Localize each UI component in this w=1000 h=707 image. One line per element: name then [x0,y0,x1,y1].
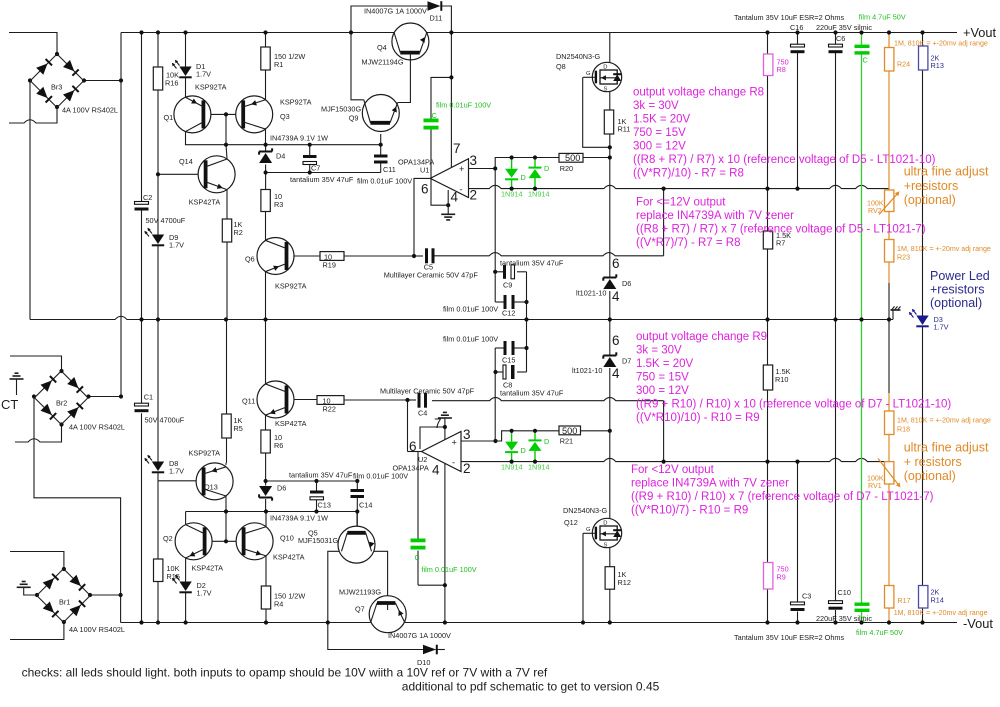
svg-text:DN2540N3-G: DN2540N3-G [556,52,601,61]
svg-text:R21: R21 [560,437,573,446]
wire C12 horizontal leads [495,301,503,303]
resistor R16 10K [153,67,162,90]
wire R22 to C4 node [344,399,408,401]
svg-text:((V*R7)/7) - R7 = R8: ((V*R7)/7) - R7 = R8 [636,237,740,249]
svg-text:film 0.01uF 100V: film 0.01uF 100V [353,472,408,481]
wire Q5 emitter to Q7 base [372,551,388,602]
wire D1 Q1 emitter column x=185.5 [185,33,187,67]
wire Q6 base to R19 [287,255,321,257]
wire R5 column [226,320,228,415]
svg-text:C2: C2 [143,193,152,202]
wire R11 to sense column [609,134,611,147]
svg-text:ultra fine adjust: ultra fine adjust [904,165,989,179]
wire RV2 to R23 [888,212,890,240]
resistor R23 orange [885,240,894,263]
capacitor C6 silmic [829,44,843,47]
svg-text:+resistors: +resistors [930,283,985,297]
svg-text:RV1: RV1 [868,482,882,490]
wire Q14 base to D9 line [158,173,206,175]
capacitor film 4.7uF green bottom [855,603,870,606]
svg-text:1.7V: 1.7V [934,323,949,332]
svg-text:R22: R22 [323,405,336,414]
wire R21 right lead [581,430,610,432]
svg-text:OPA134PA: OPA134PA [393,464,429,473]
svg-text:1.5K = 20V: 1.5K = 20V [633,114,691,126]
resistor R24 orange [885,48,894,72]
svg-text:+Vout: +Vout [963,25,997,40]
diode D10 IN4007G [423,645,436,655]
svg-text:(optional): (optional) [904,193,956,207]
wire feedback riser x=663.6 top [663,189,665,256]
wire U2 output lead [408,451,422,453]
zener diode D6 IN4739A lower [259,497,272,499]
wire D10 loop bottom [328,623,423,650]
resistor R14 2K navy [919,586,928,609]
wire green film cap column [861,33,863,45]
svg-text:Q6: Q6 [245,255,255,264]
wire Br2 right vertex to positive line [89,396,122,398]
wire green diode2 upper stub [534,158,536,168]
svg-text:film 0.01uF 100V: film 0.01uF 100V [443,305,498,314]
wire R7 column [767,189,769,231]
diode D11 IN4007G [428,1,441,11]
ground U1 pin4 [441,213,455,215]
transistor Q9 MJF15030G [362,95,399,132]
wire C6 C10 column [835,33,837,45]
resistor R6 10 [261,430,270,453]
wire R17 to bottom rail [888,608,890,623]
svg-text:IN4007G 1A 1000V: IN4007G 1A 1000V [388,631,451,640]
transistor Q7 MJW21193G [369,596,406,633]
svg-text:4A 100V RS402L: 4A 100V RS402L [62,106,118,115]
svg-text:1N914: 1N914 [528,463,550,472]
svg-text:KSP92TA: KSP92TA [275,282,307,291]
wire R8 column [767,33,769,55]
capacitor C8 tantalium [503,365,506,379]
bridge rectifier Br1 [37,569,64,596]
wire D7 zener to R21 node [609,368,611,431]
svg-text:Q8: Q8 [556,62,566,71]
wire C2 C1 column x=141.5 [141,33,143,202]
svg-text:D4: D4 [276,152,285,161]
wire sense column x=609.8 down to zener D6 [609,147,611,157]
resistor R11 1K [604,110,613,134]
zener reference D7 lt1021-10 lower [603,355,616,357]
wire Q3 collector to zener node [265,129,267,145]
svg-text:tantalium 35V 47uF: tantalium 35V 47uF [290,175,354,184]
wire U2 pin3 jog to diode row [496,431,512,441]
green diode 1N914 upper pair down [505,169,518,178]
svg-text:4: 4 [612,366,620,381]
svg-text:U1: U1 [420,166,429,175]
svg-text:tantalium 35V 47uF: tantalium 35V 47uF [500,259,564,268]
svg-text:KSP42TA: KSP42TA [189,198,221,207]
svg-text:300 = 12V: 300 = 12V [636,385,689,397]
wire Q12 gate drop to rail [582,533,584,622]
svg-text:R13: R13 [931,61,944,70]
wire Q1 collector to zener node [186,132,227,145]
svg-text:50V 4700uF: 50V 4700uF [145,416,185,425]
resistor R12 1K [605,567,614,590]
wire lower green diode1 stubs [511,431,513,442]
svg-text:IN4007G 1A 1000V: IN4007G 1A 1000V [364,7,427,16]
svg-text:((R9 + R10) / R10) x 7 (refere: ((R9 + R10) / R10) x 7 (reference voltag… [631,491,934,503]
wire Br1 left vertex to ground [24,588,37,596]
svg-text:RV2: RV2 [868,207,882,215]
svg-text:6: 6 [421,182,429,197]
svg-text:R20: R20 [560,164,573,173]
capacitor C1 50V 4700uF [135,403,149,406]
capacitor C15 film [504,341,507,355]
resistor R18 orange [885,411,894,435]
wire Q2 emitter to D2 [185,558,187,584]
svg-text:KSP92TA: KSP92TA [280,98,312,107]
svg-text:KSP92TA: KSP92TA [189,449,221,458]
svg-text:film 4.7uF 50V: film 4.7uF 50V [859,13,906,22]
ground center tap CT [16,379,18,395]
svg-text:G: G [586,527,591,533]
wire bottom raw rail from x121 to Q7 [121,622,371,624]
green diode 1N914 upper pair up [529,167,542,169]
svg-text:D: D [603,65,607,71]
svg-text:R14: R14 [931,596,944,605]
wire R13 D3 column [922,33,924,47]
wire mid rail from x30 to chassis end, hop at x121 [30,316,893,319]
svg-text:R7: R7 [776,239,785,248]
transistor Q13 KSP92TA [196,463,233,500]
wire Q2 Q10 base row [205,540,226,542]
svg-text:C16: C16 [790,23,803,32]
capacitor film C green at U1 [424,119,439,123]
svg-text:C3: C3 [802,592,811,601]
resistor R3 10 [261,190,270,212]
wire Br2 bottom AC stub with hop [15,425,62,443]
svg-text:Br2: Br2 [56,399,67,408]
svg-text:Q1: Q1 [164,113,174,122]
op-amp U2 OPA134PA [422,432,462,472]
svg-text:additional to pdf schematic to: additional to pdf schematic to get to ve… [402,680,660,694]
svg-text:3: 3 [470,153,478,168]
svg-text:R5: R5 [234,424,243,433]
wire U1 output to R19 node [414,178,430,256]
svg-text:C7: C7 [311,164,320,173]
svg-text:C: C [861,615,866,624]
ground U2 pin7 inverted [438,417,452,419]
svg-text:4A 100V RS402L: 4A 100V RS402L [69,625,125,634]
wire D6 zener to mid rail [609,291,611,320]
svg-text:D11: D11 [430,14,443,23]
svg-text:1.7V: 1.7V [169,467,184,476]
svg-text:(optional): (optional) [904,469,956,483]
svg-text:C1: C1 [144,393,153,402]
wire R18 to RV1 [888,435,890,462]
capacitor C14 film [351,489,365,492]
wire U1 pin3 lead [469,168,496,170]
wire Q10 emitter to R4 [265,556,267,586]
green diode 1N914 lower pair down [505,442,518,451]
wire Q1 Q3 base link [204,113,226,115]
wire Br1 top AC stub [10,552,64,570]
wire D6 zener leads [265,481,267,486]
svg-text:(optional): (optional) [930,296,982,310]
wire C9 C12 bracket left x=495.2 [494,169,496,272]
capacitor film 4.7uF green top [855,45,870,48]
svg-text:((R9 + R10) / R10) x 10 (refer: ((R9 + R10) / R10) x 10 (reference volta… [636,399,951,411]
svg-text:MJW21193G: MJW21193G [339,588,381,597]
wire mid rail to D7 zener [609,320,611,356]
svg-text:R4: R4 [274,600,283,609]
LED D2 1.7V [179,582,191,592]
svg-text:R6: R6 [274,441,283,450]
svg-text:replace IN4739A with 7V zener: replace IN4739A with 7V zener [636,210,794,222]
svg-text:1.7V: 1.7V [169,241,184,250]
svg-text:film 4.7uF 50V: film 4.7uF 50V [856,628,903,637]
wire lower zener node y=481 [266,480,358,482]
svg-text:3k = 30V: 3k = 30V [636,345,682,357]
svg-text:D7: D7 [622,357,631,366]
wire Q12 source to R12 [609,548,611,567]
svg-text:Tantalum 35V 10uF ESR=2 Ohms: Tantalum 35V 10uF ESR=2 Ohms [734,13,844,22]
svg-text:lt1021-10: lt1021-10 [572,366,602,375]
wire zener node D4 row y=144.7 [226,144,381,146]
wire green diode1 upper stub [511,158,513,169]
svg-text:C: C [415,553,420,562]
wire diode top row to R20 [512,157,535,159]
resistor R13 2K navy [919,46,928,70]
svg-text:D: D [544,437,549,446]
transistor Q10 KSP42TA [236,523,273,560]
svg-text:500: 500 [565,153,580,163]
svg-text:Q11: Q11 [242,397,255,406]
wire C4 feedback row y=400.7 with hops [432,397,664,400]
wire C14 stubs [356,481,358,489]
wire C11 stubs [380,145,382,155]
capacitor C2 50V 4700uF [135,202,149,205]
wire R15 column x=158.2 (within D8 chain) [157,558,159,560]
wire U2 pin4 column to bottom rail [444,463,446,585]
zener reference D6 lt1021-10 upper [603,277,616,279]
resistor R19 10 [320,252,344,261]
svg-text:Br1: Br1 [59,598,70,607]
svg-text:1M, 810K = +-20mv adj range: 1M, 810K = +-20mv adj range [897,417,991,425]
svg-text:U2: U2 [418,455,427,464]
resistor R7 1.5K [763,231,772,249]
svg-text:R3: R3 [274,200,283,209]
transistor Q1 KSP92TA [174,96,211,133]
svg-text:6: 6 [612,333,620,348]
svg-text:R16: R16 [165,79,178,88]
wire R5 to Q13 top [225,463,227,465]
svg-text:R10: R10 [775,375,788,384]
wire lower green diode2 stubs [534,431,536,441]
svg-text:KSP92TA: KSP92TA [195,83,227,92]
svg-text:C11: C11 [383,165,396,174]
svg-text:Multilayer Ceramic 50V 47pF: Multilayer Ceramic 50V 47pF [384,271,479,280]
svg-text:((R8 + R7) / R7) x 7 (referenc: ((R8 + R7) / R7) x 7 (reference voltage … [636,224,926,236]
wire R20 to sense column [583,157,610,159]
svg-text:D6: D6 [277,484,286,493]
svg-text:film 0.01uF 100V: film 0.01uF 100V [357,177,412,186]
wire base node down to Q14 collector [225,114,227,144]
junction dots [139,30,143,34]
svg-text:C15: C15 [502,356,515,365]
svg-text:Q9: Q9 [349,114,359,123]
wire chassis drop to R18 [888,320,890,394]
wire R6 to lower zener node [265,453,267,481]
wire U2 film cap bottom jog to pin4 line [418,584,445,586]
wire vertical positive feed x=121 upper segment [120,33,122,397]
svg-text:1.5K = 20V: 1.5K = 20V [636,358,694,370]
wire C15 C8 bracket right x=526.5 [526,320,528,349]
wire D2 to bottom rail [185,593,187,623]
svg-text:220uF 35V silmic: 220uF 35V silmic [816,23,872,32]
capacitor C11 film [374,155,388,158]
svg-text:C10: C10 [838,588,851,597]
svg-text:1.7V: 1.7V [196,70,211,79]
svg-text:-: - [452,458,455,468]
svg-text:+: + [452,438,457,448]
wire R21 node to Q12 drain [609,431,611,519]
wire Q6 collector to mid rail to Q11 [265,272,267,320]
capacitor C4 multilayer ceramic [418,393,421,408]
svg-text:tantalium 35V 47uF: tantalium 35V 47uF [500,389,564,398]
resistor R22 10 [317,396,344,405]
wire U2 film cap column [417,452,419,539]
svg-text:1.7V: 1.7V [197,589,212,598]
svg-text:MJF15030G: MJF15030G [321,105,361,114]
capacitor C13 tantalium [310,491,324,494]
svg-text:C: C [432,111,437,120]
svg-text:3k = 30V: 3k = 30V [633,100,679,112]
svg-text:S: S [604,86,608,92]
wire R1 column x=265.5 [265,33,267,48]
wire Q9 collector to raw rail [351,33,364,100]
svg-text:2: 2 [470,188,478,203]
wire RV1 to R17 [888,484,890,586]
svg-text:Br3: Br3 [51,83,62,92]
svg-text:C4: C4 [418,409,427,418]
svg-text:Tantalum 35V 10uF ESR=2 Ohms: Tantalum 35V 10uF ESR=2 Ohms [734,633,844,642]
capacitor C16 tantalum [791,44,805,47]
wire R23 lower stub [888,262,890,283]
wire R12 to bottom rail [609,589,611,622]
wire Br3 bottom AC stub with hop [9,107,57,123]
svg-text:IN4739A 9.1V 1W: IN4739A 9.1V 1W [270,514,328,523]
svg-text:R18: R18 [897,426,910,434]
svg-text:4: 4 [451,190,459,205]
transistor Q5 MJF15031G [338,526,375,563]
wire R16 D9 D8 column x=158 [157,33,159,68]
wire pin3 jog up to diode row [495,158,511,169]
svg-text:Q2: Q2 [163,534,173,543]
resistor R5 1K [222,414,231,438]
svg-text:Q12: Q12 [564,518,578,527]
wire U2 pin7 jog to inverted ground [420,427,445,449]
wire C9 C12 bracket right x=526.5 [526,272,528,302]
svg-text:For <12V output: For <12V output [631,464,715,476]
svg-text:film 0.01uF 100V: film 0.01uF 100V [422,565,477,574]
bridge rectifier Br3 [30,54,57,81]
wire lower node row y=511.5 to Q5 base [186,511,358,513]
svg-text:output voltage change R9: output voltage change R9 [636,331,767,343]
svg-text:((V*R7)/10) - R7 = R8: ((V*R7)/10) - R7 = R8 [633,168,744,180]
potentiometer RV1 100K orange [885,462,894,484]
wire C9 horizontal leads [495,271,503,273]
transistor Q4 MJW21194G [392,23,429,60]
wire Q9 base to zener node [380,134,382,145]
resistor R2 1K [222,219,231,242]
svg-text:Q13: Q13 [204,483,218,492]
wire -Vout rail from Q7 to right edge [405,622,957,624]
svg-text:4: 4 [612,289,620,304]
wire C15 C8 bracket left x=495.2 [494,348,496,372]
svg-text:750 = 15V: 750 = 15V [633,127,686,139]
svg-text:IN4739A 9.1V 1W: IN4739A 9.1V 1W [270,134,328,143]
wire R2 to mid rail [226,242,228,320]
wire R9 column [767,462,769,563]
svg-text:film 0.01uF 100V: film 0.01uF 100V [443,335,498,344]
svg-text:D: D [521,446,526,455]
svg-text:CT: CT [1,397,18,412]
svg-text:D6: D6 [622,279,631,288]
wire U1 film cap C jog [431,77,451,118]
svg-text:R24: R24 [897,61,910,69]
svg-text:C6: C6 [836,34,845,43]
svg-text:300 = 12V: 300 = 12V [633,141,686,153]
svg-text:For <=12V output: For <=12V output [636,197,726,209]
capacitor C3 [791,602,805,605]
wire Br1 bottom AC stub [10,622,64,640]
wire Br1 right vertex to lower raw feed [90,594,121,596]
svg-text:+ resistors: + resistors [904,455,962,469]
wire C3 column [797,462,799,602]
svg-text:R11: R11 [618,125,631,134]
op-amp U1 OPA134PA [430,159,468,198]
svg-text:6: 6 [612,256,620,271]
LED D9 1.7V [152,235,164,245]
wire top raw rail from x121 to Q4 [121,32,394,34]
mosfet Q8 DN2540N3-G [592,62,621,91]
wire Br3 top AC stub [9,33,57,55]
chassis ground at mid rail end [891,309,901,311]
wire D4 leads [265,145,267,151]
capacitor C12 film [504,295,507,309]
svg-text:R12: R12 [618,578,631,587]
svg-text:R23: R23 [897,254,910,262]
svg-text:R8: R8 [777,65,786,74]
svg-text:+resistors: +resistors [904,179,959,193]
transistor Q6 KSP92TA [257,238,294,275]
ground at Br1 [17,586,31,588]
svg-text:((V*R10)/7) - R10 = R9: ((V*R10)/7) - R10 = R9 [631,505,748,517]
capacitor C10 silmic [829,601,843,604]
svg-text:7: 7 [453,141,461,156]
svg-text:KSP42TA: KSP42TA [192,564,224,573]
svg-text:+: + [459,164,464,174]
resistor R10 1.5K [763,365,772,390]
wire Br3 left vertex down to mid rail [29,81,31,320]
svg-text:4: 4 [432,463,440,478]
wire C8 horizontal leads [495,371,503,373]
wire C7 stubs [309,145,311,155]
svg-text:replace IN4739A with 7V zener: replace IN4739A with 7V zener [631,478,789,490]
svg-text:MJW21194G: MJW21194G [362,58,404,67]
svg-text:C9: C9 [503,281,512,290]
green diode 1N914 lower pair up [529,439,542,441]
wire R4 to bottom rail [265,609,267,623]
svg-text:-: - [460,185,463,195]
wire Q8 gate drop [583,77,610,147]
